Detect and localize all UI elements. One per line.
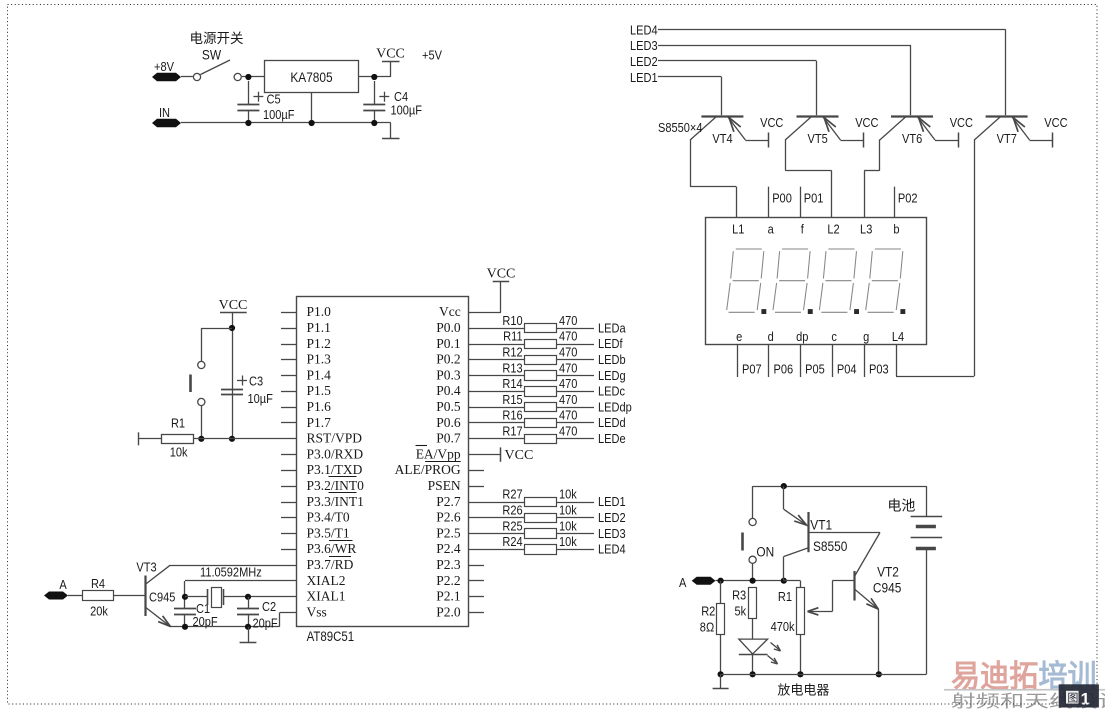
transistor VT1 S8550: [784, 486, 848, 581]
svg-text:c: c: [831, 329, 837, 344]
wire bottom rail battery circuit: [721, 674, 927, 676]
wire regulator output to VCC: [359, 76, 391, 78]
power VCC chip symbol: [487, 267, 516, 282]
pin P3.0/RXD: [281, 446, 363, 461]
svg-text:R1: R1: [171, 415, 185, 430]
svg-text:LEDd: LEDd: [598, 415, 626, 430]
display DS1 4-digit 7-segment body: [706, 218, 927, 345]
power VCC reset symbol: [219, 298, 248, 439]
resistor R2 8ohm: [700, 581, 725, 675]
junction button to RST rail: [198, 436, 204, 442]
pin P3.1/TXD: [281, 462, 363, 477]
svg-text:470: 470: [559, 424, 578, 439]
ground battery circuit: [720, 674, 722, 688]
svg-text:ON: ON: [756, 544, 774, 560]
wire LED2 to VT5 base: [658, 61, 817, 116]
pin XIAL1: [307, 589, 346, 604]
svg-text:P1.1: P1.1: [307, 320, 331, 335]
svg-text:图: 图: [1067, 691, 1078, 704]
junction VT1 emitter top: [781, 483, 787, 489]
resistor R24 10k: [469, 534, 594, 554]
display digit 3 segments: [819, 249, 859, 314]
svg-text:g: g: [863, 329, 869, 344]
svg-text:P04: P04: [837, 362, 857, 377]
pin P3.3/INT1: [281, 493, 364, 509]
svg-text:LED2: LED2: [630, 54, 658, 69]
capacitor C2 20pF: [237, 597, 278, 631]
svg-text:LED3: LED3: [630, 38, 658, 53]
junction D1 bottom: [750, 671, 756, 677]
svg-text:VCC: VCC: [376, 47, 405, 62]
svg-text:470k: 470k: [771, 619, 796, 634]
pin P0.4: [436, 383, 461, 398]
svg-text:R16: R16: [502, 408, 523, 423]
resistor R10 470: [469, 313, 594, 332]
svg-text:VCC: VCC: [505, 448, 534, 463]
junction C2 bottom: [245, 624, 251, 630]
resistor R11 470: [469, 329, 594, 349]
svg-text:VT6: VT6: [902, 131, 923, 146]
svg-text:LED4: LED4: [630, 23, 658, 38]
svg-text:P2.5: P2.5: [436, 525, 461, 540]
svg-text:P0.0: P0.0: [436, 320, 461, 335]
svg-text:LEDc: LEDc: [598, 384, 625, 399]
pin XIAL2: [307, 573, 346, 588]
resistor R27 10k: [469, 487, 594, 507]
svg-text:R1: R1: [778, 589, 792, 604]
svg-text:P3.7/RD: P3.7/RD: [307, 557, 354, 572]
svg-text:LED3: LED3: [598, 526, 626, 541]
svg-text:VCC: VCC: [760, 115, 784, 130]
svg-text:S8550×4: S8550×4: [658, 120, 703, 135]
ground crystal section: [248, 627, 250, 643]
svg-text:Vss: Vss: [307, 604, 327, 619]
wire VT6 emitter to VCC: [935, 140, 958, 142]
svg-text:C5: C5: [267, 92, 281, 107]
svg-text:10k: 10k: [170, 445, 189, 460]
junction at C5 top: [245, 74, 251, 80]
svg-text:P1.3: P1.3: [307, 352, 332, 367]
capacitor C1 20pF: [174, 601, 218, 629]
svg-text:VCC: VCC: [487, 267, 516, 282]
svg-text:10k: 10k: [559, 487, 578, 502]
wire display pin to P05: [800, 344, 802, 377]
svg-text:e: e: [736, 329, 742, 344]
pin RST/VPD: [307, 431, 363, 446]
svg-text:A: A: [679, 575, 687, 590]
svg-text:电源开关: 电源开关: [190, 31, 244, 46]
wire display pin to P03: [864, 344, 866, 377]
pin Vss: [307, 604, 327, 619]
svg-text:P1.0: P1.0: [307, 304, 332, 319]
svg-text:VCC: VCC: [1044, 115, 1068, 130]
svg-text:20pF: 20pF: [193, 614, 218, 629]
svg-text:20pF: 20pF: [253, 616, 278, 631]
capacitor C4 100uF: [363, 81, 422, 123]
svg-text:P05: P05: [805, 362, 825, 377]
wire Vcc pin to VCC symbol: [469, 281, 501, 312]
junction at C4 top: [371, 74, 377, 80]
svg-text:P06: P06: [774, 362, 794, 377]
svg-text:EA/Vpp: EA/Vpp: [416, 446, 461, 461]
pin P2.1: [436, 589, 484, 604]
svg-text:L2: L2: [827, 222, 840, 237]
battery BT1 电池: [887, 486, 942, 674]
svg-text:P1.4: P1.4: [307, 367, 332, 382]
pin P2.4: [436, 541, 461, 556]
power VCC bar VT6: [950, 115, 974, 147]
diode D1 LED: [739, 639, 781, 674]
svg-text:XIAL2: XIAL2: [307, 573, 346, 588]
svg-text:VT5: VT5: [808, 131, 829, 146]
svg-text:C2: C2: [262, 599, 276, 614]
wire LED1 to VT4 base: [658, 77, 722, 116]
wire VT6 collector to display L3: [864, 140, 880, 218]
resistor R1 10k reset: [138, 415, 296, 459]
pin P1.3: [281, 352, 331, 367]
pin P3.2/INT0: [281, 477, 364, 494]
svg-text:R27: R27: [502, 487, 523, 502]
svg-text:IN: IN: [159, 105, 170, 120]
resistor R12 470: [469, 345, 594, 365]
pin P1.6: [281, 399, 331, 414]
wire VT5 emitter to VCC: [841, 140, 864, 142]
junction C5 bottom: [245, 120, 251, 126]
wire VT4 collector to display L1: [690, 140, 736, 218]
svg-text:P07: P07: [742, 362, 762, 377]
svg-text:P3.4/T0: P3.4/T0: [307, 510, 350, 525]
power VCC bar VT4: [760, 115, 784, 147]
resistor R17 470: [469, 424, 594, 444]
wire +8V to switch: [181, 76, 193, 78]
wire VT4 emitter to VCC: [745, 140, 768, 142]
display digit 4 segments: [866, 249, 906, 314]
svg-text:P2.2: P2.2: [436, 573, 460, 588]
svg-text:LED1: LED1: [630, 70, 658, 85]
wire XIAL2 branch: [185, 581, 297, 627]
pin P0.6: [436, 415, 461, 430]
svg-text:LED1: LED1: [598, 494, 626, 509]
svg-text:PSEN: PSEN: [428, 478, 461, 493]
wire display pin to P04: [832, 344, 834, 377]
svg-text:P2.6: P2.6: [436, 510, 461, 525]
svg-text:VT2: VT2: [877, 564, 899, 580]
svg-text:11.0592MHz: 11.0592MHz: [200, 565, 262, 580]
svg-text:R14: R14: [502, 376, 523, 391]
svg-text:LEDa: LEDa: [598, 321, 626, 336]
svg-text:VT4: VT4: [712, 131, 733, 146]
button ON S2: [743, 486, 757, 581]
svg-text:P01: P01: [804, 191, 824, 206]
potentiometer R1 470k: [771, 581, 805, 675]
pin P2.0: [436, 604, 484, 619]
transistor VT2 C945: [855, 533, 902, 675]
svg-text:LEDe: LEDe: [598, 431, 626, 446]
svg-text:XIAL1: XIAL1: [307, 589, 346, 604]
IC U2 AT89C51 body: [297, 297, 469, 627]
svg-text:470: 470: [559, 376, 578, 391]
transistor VT5 S8550: [785, 117, 840, 147]
svg-text:dp: dp: [796, 329, 809, 344]
svg-text:5k: 5k: [735, 604, 748, 619]
svg-text:Vcc: Vcc: [439, 304, 461, 319]
pin P2.5: [436, 525, 461, 540]
svg-text:P0.6: P0.6: [436, 415, 461, 430]
junction reset button branch: [229, 325, 235, 331]
transistor VT3 C945: [136, 560, 175, 627]
node +8V input terminal: [152, 59, 181, 81]
pin P2.3: [436, 557, 484, 572]
svg-text:R3: R3: [732, 588, 746, 603]
svg-text:P0.5: P0.5: [436, 399, 461, 414]
junction button bottom: [750, 578, 756, 584]
junction C4 bottom: [371, 120, 377, 126]
junction C3 to RST rail: [229, 436, 235, 442]
svg-text:10k: 10k: [559, 534, 578, 549]
svg-text:LED2: LED2: [598, 510, 626, 525]
resistor R14 470: [469, 376, 594, 396]
power VCC bar VT5: [855, 115, 879, 147]
svg-text:P3.1/TXD: P3.1/TXD: [307, 462, 363, 477]
resistor R26 10k: [469, 503, 594, 523]
regulator U1 KA7805: [265, 61, 359, 93]
wire LED3 to VT6 base: [658, 45, 911, 115]
power VCC +5V symbol: [376, 47, 405, 78]
svg-text:P0.4: P0.4: [436, 383, 461, 398]
svg-text:LEDb: LEDb: [598, 352, 626, 367]
svg-text:10k: 10k: [559, 503, 578, 518]
transistor VT7 S8550: [974, 117, 1029, 147]
pin P2.6: [436, 510, 461, 525]
svg-text:d: d: [768, 329, 774, 344]
pin P2.7: [436, 494, 461, 509]
svg-text:LEDdp: LEDdp: [598, 400, 632, 415]
wire display pin to P01: [800, 187, 802, 218]
svg-text:LED4: LED4: [598, 542, 626, 557]
transistor VT4 S8550: [690, 117, 745, 147]
svg-text:R15: R15: [502, 392, 523, 407]
pin P0.1: [436, 336, 460, 351]
resistor R16 470: [469, 408, 594, 428]
svg-text:100µF: 100µF: [263, 107, 295, 122]
svg-text:放电电器: 放电电器: [777, 683, 829, 698]
pin EA/Vpp: [416, 446, 461, 462]
pin P0.2: [436, 352, 460, 367]
svg-text:470: 470: [559, 313, 578, 328]
pin P0.7: [436, 431, 461, 446]
svg-text:L3: L3: [860, 222, 873, 237]
node A terminal right: [679, 575, 715, 590]
pin P1.5: [281, 383, 331, 398]
svg-text:100µF: 100µF: [391, 103, 423, 118]
svg-text:R2: R2: [701, 604, 715, 619]
svg-text:P02: P02: [898, 191, 918, 206]
wire A to R4: [68, 595, 82, 597]
pin P1.4: [281, 367, 331, 382]
power VCC terminal at EA/Vpp: [501, 447, 534, 463]
node A terminal left: [44, 577, 68, 599]
svg-text:R10: R10: [502, 313, 523, 328]
junction VT2 emitter bottom: [876, 671, 882, 677]
junction regulator GND: [309, 120, 315, 126]
svg-text:470: 470: [559, 408, 578, 423]
svg-text:KA7805: KA7805: [290, 69, 332, 85]
svg-text:P1.6: P1.6: [307, 399, 332, 414]
svg-text:P2.7: P2.7: [436, 494, 461, 509]
wire top rail battery circuit: [753, 486, 927, 488]
wire EA/Vpp to VCC terminal: [469, 454, 501, 456]
svg-text:SW: SW: [202, 47, 222, 63]
capacitor C3 10uF: [221, 374, 273, 407]
wire VT7 emitter to VCC: [1030, 140, 1053, 142]
wire VT1 base to VT2 collector: [809, 532, 881, 534]
svg-text:L1: L1: [732, 222, 745, 237]
crystal Y1 11.0592MHz: [185, 565, 296, 608]
svg-text:LEDf: LEDf: [598, 336, 623, 351]
svg-text:电池: 电池: [887, 498, 915, 514]
svg-text:VT7: VT7: [997, 131, 1018, 146]
svg-text:470: 470: [559, 345, 578, 360]
pin PSEN: [428, 478, 484, 493]
wire display pin to P07: [737, 344, 739, 377]
wire Vss to ground rail: [280, 613, 297, 627]
resistor R4 20k: [83, 576, 114, 619]
svg-text:P0.1: P0.1: [436, 336, 460, 351]
transistor VT6 S8550: [880, 117, 935, 147]
svg-text:+8V: +8V: [154, 59, 174, 74]
reset button S1: [191, 328, 233, 439]
pin P0.5: [436, 399, 461, 414]
svg-text:R26: R26: [502, 503, 523, 518]
svg-text:P2.4: P2.4: [436, 541, 461, 556]
svg-text:b: b: [893, 222, 899, 237]
svg-text:VT3: VT3: [136, 560, 157, 575]
junction R2 top: [718, 578, 724, 584]
wire LED4 to VT7 base: [658, 29, 1006, 115]
svg-text:R4: R4: [91, 576, 105, 591]
pin P0.3: [436, 367, 461, 382]
svg-text:P2.0: P2.0: [436, 604, 461, 619]
svg-text:R24: R24: [502, 534, 523, 549]
junction R2 bottom: [718, 671, 724, 677]
svg-text:P03: P03: [869, 362, 889, 377]
pin P1.2: [281, 336, 331, 351]
junction crystal right: [245, 594, 251, 600]
pin Vcc: [439, 304, 461, 319]
wire R4 to VT3 base: [114, 595, 145, 597]
svg-text:C945: C945: [873, 580, 901, 596]
resistor R13 470: [469, 360, 594, 380]
svg-text:P3.3/INT1: P3.3/INT1: [307, 494, 364, 509]
svg-text:470: 470: [559, 360, 578, 375]
svg-text:VT1: VT1: [810, 517, 832, 533]
svg-text:470: 470: [559, 392, 578, 407]
capacitor C5 100uF: [237, 81, 294, 123]
svg-text:P2.3: P2.3: [436, 557, 461, 572]
wire VT3 collector to P3.7/RD: [170, 565, 297, 567]
svg-text:20k: 20k: [90, 604, 109, 619]
svg-text:P0.3: P0.3: [436, 367, 461, 382]
svg-text:R11: R11: [503, 329, 523, 344]
switch SW 电源开关: [190, 31, 244, 81]
svg-text:A: A: [59, 577, 67, 592]
svg-text:VCC: VCC: [219, 298, 248, 313]
display digit 1 segments: [727, 249, 767, 314]
wire node A rail: [716, 580, 784, 582]
resistor R25 10k: [469, 518, 594, 538]
svg-text:LEDg: LEDg: [598, 368, 626, 383]
wire VT7 collector to display L4: [896, 140, 975, 377]
ground power section: [390, 123, 392, 138]
pin P2.2: [436, 573, 484, 588]
svg-text:AT89C51: AT89C51: [307, 629, 355, 644]
svg-text:a: a: [768, 222, 774, 237]
junction R1 bottom: [797, 671, 803, 677]
svg-text:P1.2: P1.2: [307, 336, 331, 351]
svg-text:P1.5: P1.5: [307, 383, 332, 398]
power VCC bar VT7: [1044, 115, 1068, 147]
svg-text:VCC: VCC: [855, 115, 879, 130]
wire display pin to P06: [768, 344, 770, 377]
junction C1 bottom: [182, 624, 188, 630]
svg-text:P3.5/T1: P3.5/T1: [307, 525, 350, 540]
pin P1.0: [281, 304, 331, 319]
svg-text:P3.0/RXD: P3.0/RXD: [307, 446, 364, 461]
wire VT5 collector to display L2: [785, 140, 831, 218]
svg-text:P00: P00: [772, 191, 792, 206]
svg-text:R13: R13: [502, 360, 523, 375]
wire ground rail of power section: [181, 122, 391, 124]
pin P3.7/RD: [307, 557, 354, 573]
svg-text:R17: R17: [502, 424, 523, 439]
resistor R15 470: [469, 392, 594, 411]
svg-text:470: 470: [559, 329, 578, 344]
pin P3.6/WR: [281, 541, 356, 557]
svg-text:R12: R12: [502, 345, 523, 360]
svg-text:P3.6/WR: P3.6/WR: [307, 541, 357, 556]
wire display pin to P02: [894, 187, 896, 218]
svg-text:P3.2/INT0: P3.2/INT0: [307, 478, 365, 493]
wire regulator GND pin: [311, 92, 313, 123]
svg-text:1: 1: [1081, 690, 1090, 709]
svg-text:S8550: S8550: [813, 538, 847, 554]
pin P0.0: [436, 320, 461, 335]
svg-text:VCC: VCC: [950, 115, 974, 130]
wire R1 wiper to VT2 base: [808, 581, 854, 616]
svg-text:L4: L4: [892, 329, 905, 344]
wire display pin to P00: [768, 187, 770, 218]
wire switch to regulator input: [242, 76, 264, 78]
pin P3.4/T0: [281, 510, 350, 525]
display digit 2 segments: [773, 249, 813, 314]
svg-text:+5V: +5V: [422, 48, 442, 63]
junction R1 top: [781, 578, 787, 584]
svg-text:R25: R25: [502, 518, 523, 533]
junction crystal left: [182, 594, 188, 600]
pin P1.7: [281, 415, 331, 430]
svg-text:ALE/PROG: ALE/PROG: [395, 462, 461, 477]
wire VT3 emitter rail: [170, 626, 279, 628]
resistor R3 5k: [732, 588, 756, 640]
svg-text:P0.7: P0.7: [436, 431, 461, 446]
svg-text:8Ω: 8Ω: [700, 620, 714, 635]
svg-text:10µF: 10µF: [248, 391, 273, 406]
svg-text:P1.7: P1.7: [307, 415, 332, 430]
svg-text:RST/VPD: RST/VPD: [307, 431, 363, 446]
pin P1.1: [281, 320, 331, 335]
svg-text:P2.1: P2.1: [436, 589, 460, 604]
svg-text:10k: 10k: [559, 518, 578, 533]
